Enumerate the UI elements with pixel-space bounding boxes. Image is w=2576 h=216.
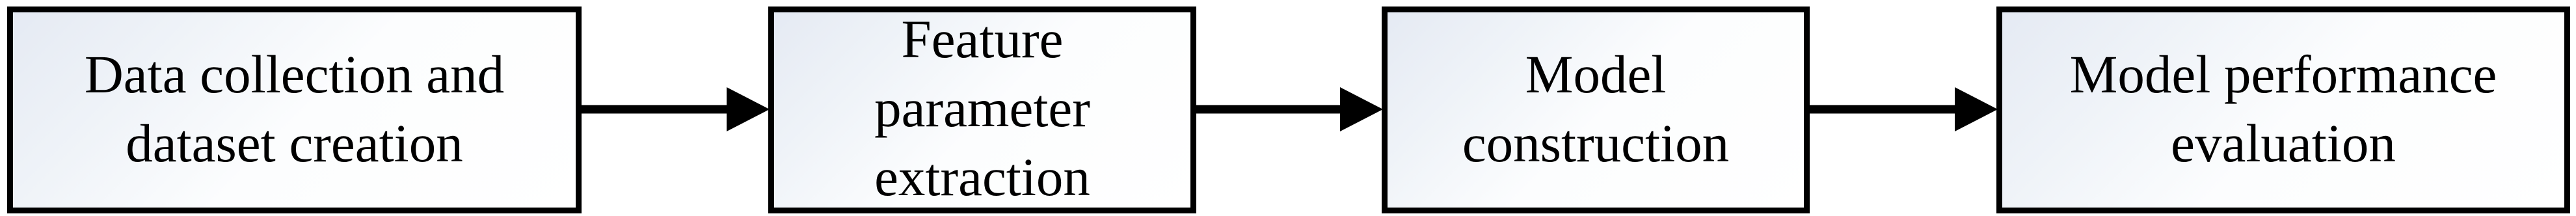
box 3: Model construction (1382, 7, 1810, 213)
box 3 label (1382, 40, 1810, 178)
arrow 3: box3 -> box4 (1808, 87, 1998, 131)
arrow 2: box2 -> box3 (1194, 87, 1383, 131)
box 4 label (1996, 40, 2570, 178)
box 2 label (768, 5, 1196, 211)
box 1 label (7, 40, 582, 178)
box 2: Feature parameter extraction (768, 7, 1196, 213)
box 4: Model performance evaluation (1996, 7, 2570, 213)
box 1: Data collection and dataset creation (7, 7, 582, 213)
